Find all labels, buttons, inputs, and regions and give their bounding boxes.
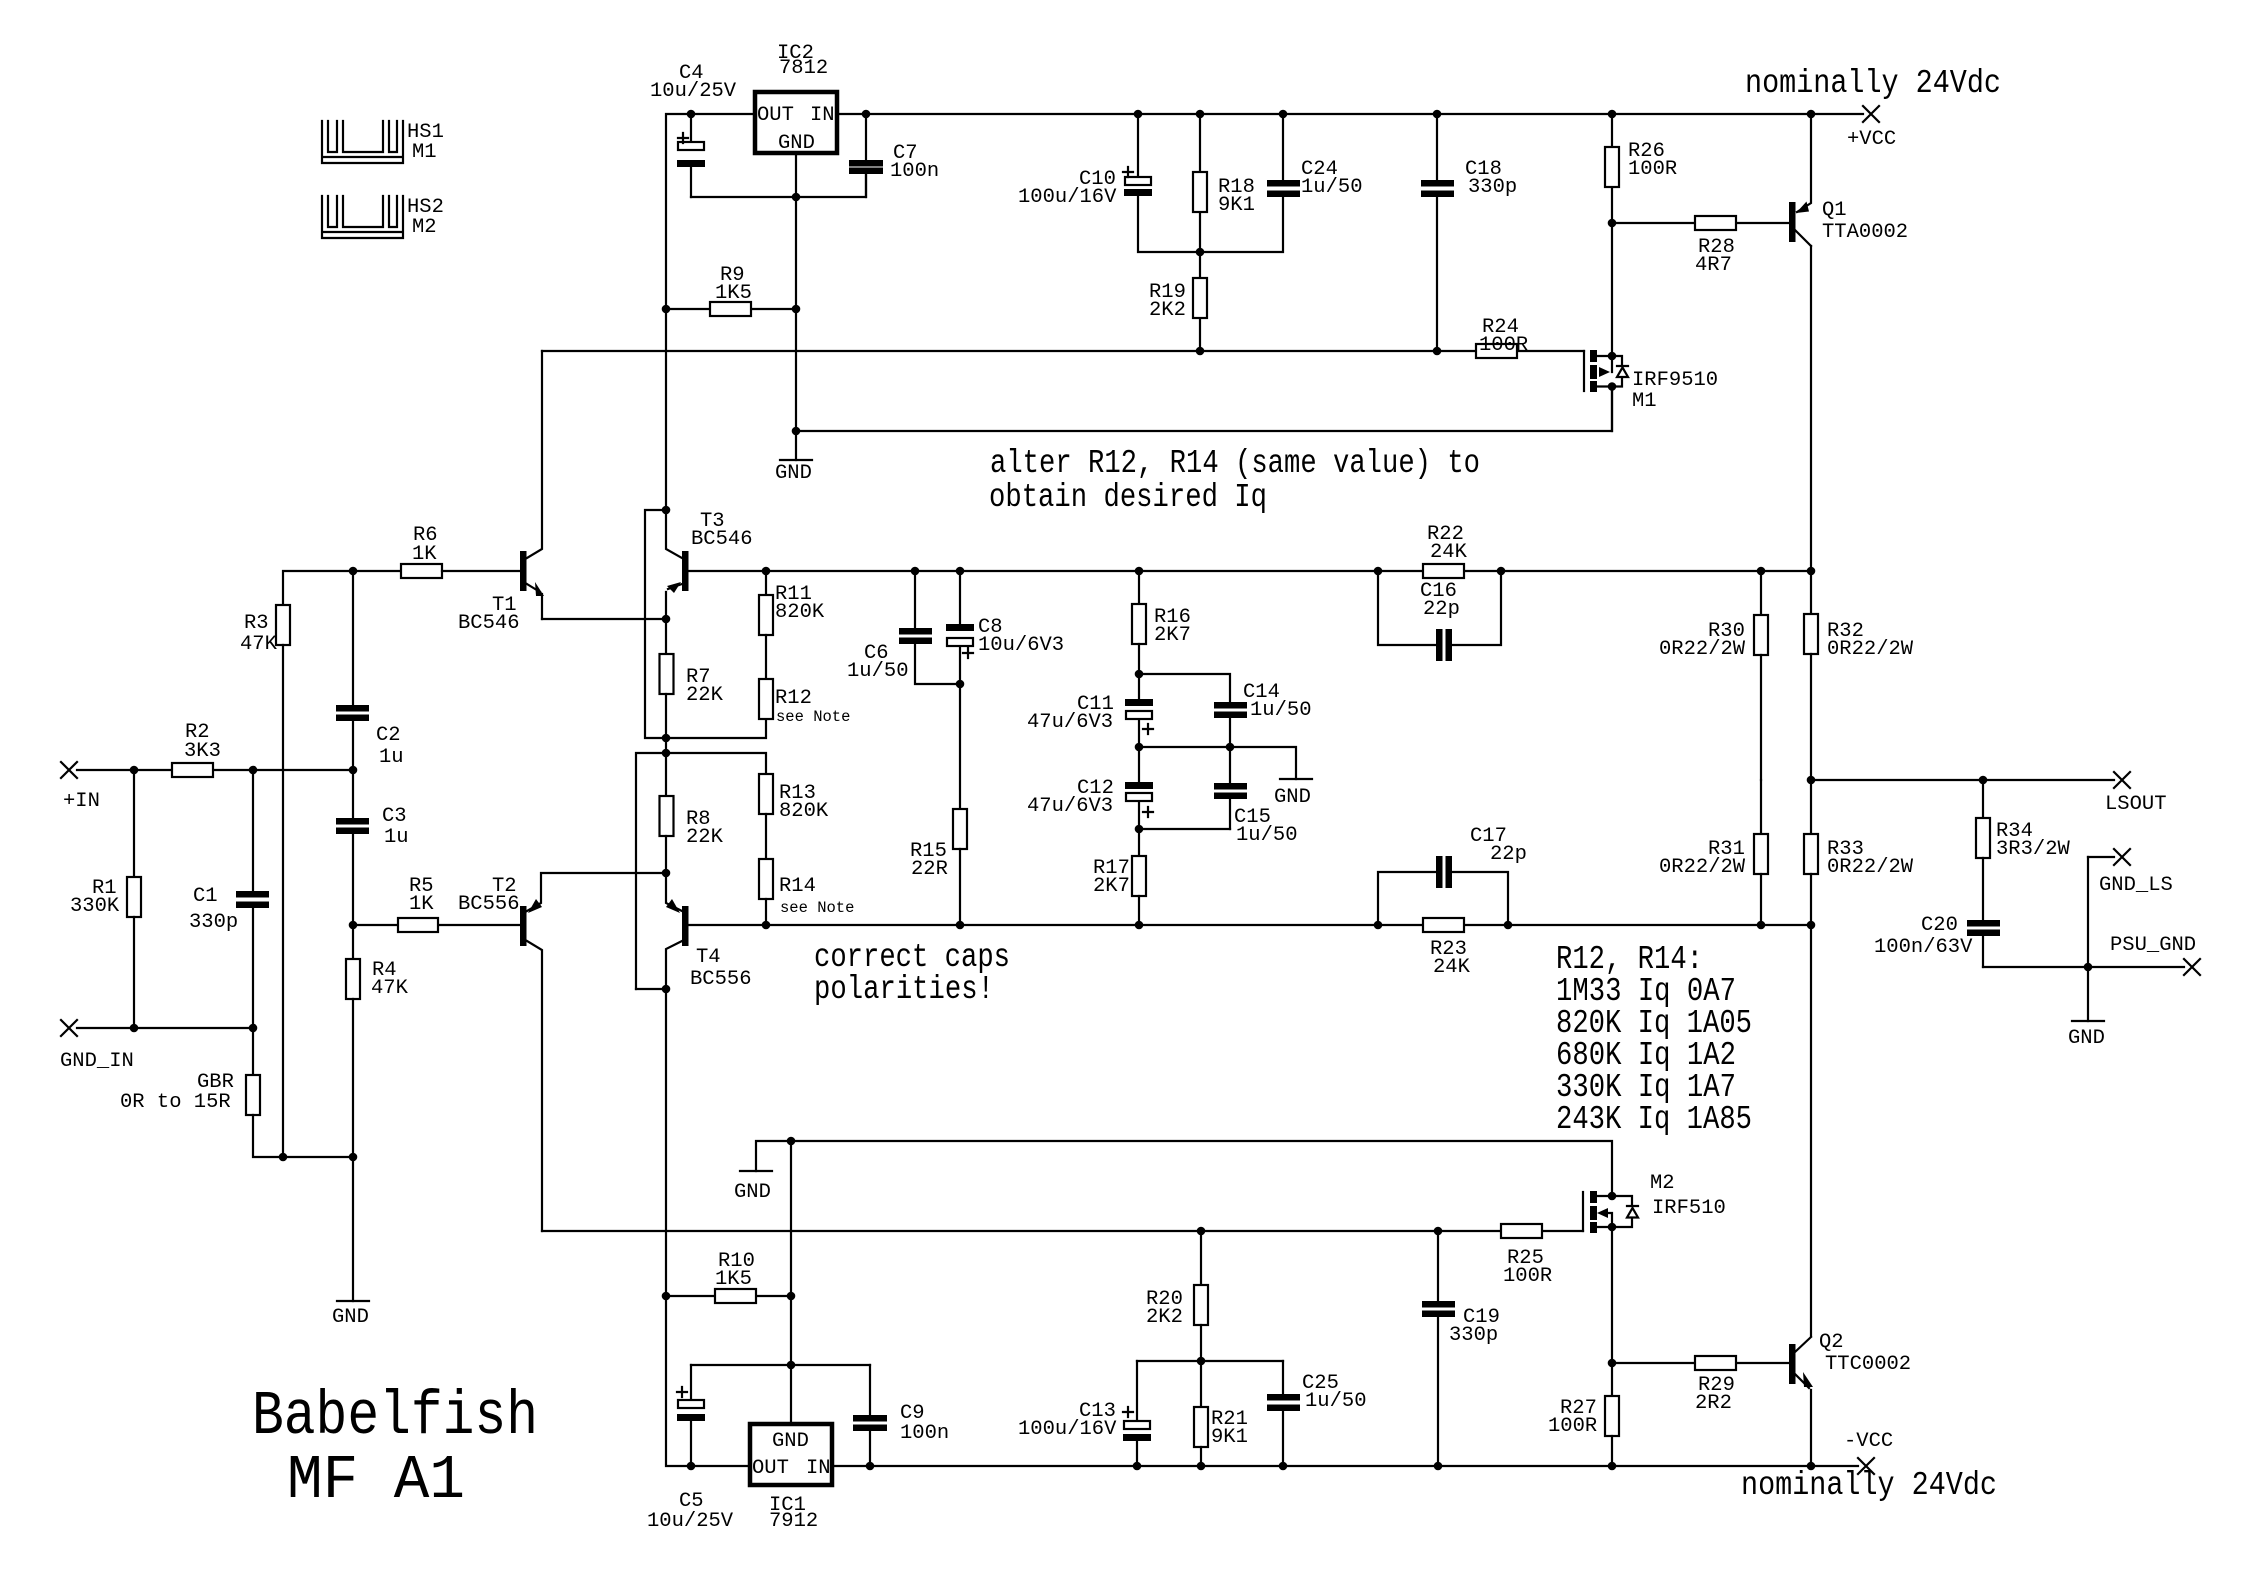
resistor R12 bbox=[759, 679, 850, 726]
note alter R12,R14 bbox=[989, 445, 1480, 516]
heatsink HS2 bbox=[322, 196, 444, 239]
svg-text:GND: GND bbox=[2068, 1027, 2105, 1050]
svg-text:+VCC: +VCC bbox=[1847, 128, 1896, 151]
svg-text:330p: 330p bbox=[189, 911, 238, 934]
svg-text:9K1: 9K1 bbox=[1211, 1426, 1248, 1449]
title Babelfish MF A1 bbox=[252, 1381, 538, 1516]
ground (PSU) bbox=[2068, 1021, 2105, 1050]
resistor R25 bbox=[1501, 1224, 1552, 1288]
resistor R2 bbox=[172, 721, 221, 777]
capacitor C4 bbox=[650, 62, 737, 197]
pin LSOUT bbox=[2105, 772, 2167, 816]
svg-text:47K: 47K bbox=[240, 633, 278, 656]
svg-text:1u/50: 1u/50 bbox=[1301, 176, 1363, 199]
resistor R27 bbox=[1548, 1359, 1619, 1466]
heatsink HS1 bbox=[322, 121, 444, 164]
wire +VCC top rail bbox=[666, 110, 1863, 510]
resistor R10 bbox=[662, 1250, 796, 1303]
svg-text:2K2: 2K2 bbox=[1149, 299, 1186, 322]
resistor R28 bbox=[1612, 216, 1789, 277]
resistor R9 bbox=[662, 264, 796, 316]
svg-text:+IN: +IN bbox=[63, 790, 100, 813]
capacitor C1 bbox=[189, 770, 269, 1028]
svg-text:Q2: Q2 bbox=[1819, 1331, 1844, 1354]
svg-text:24K: 24K bbox=[1430, 541, 1468, 564]
wire T2/T4 emitter node bbox=[527, 869, 682, 911]
svg-text:LSOUT: LSOUT bbox=[2105, 793, 2167, 816]
capacitor C20 bbox=[1874, 914, 2000, 967]
svg-text:1u/50: 1u/50 bbox=[1236, 824, 1298, 847]
svg-text:MF A1: MF A1 bbox=[287, 1445, 465, 1516]
wire M2 drain / GND net bbox=[756, 1137, 1612, 1196]
svg-text:1K: 1K bbox=[409, 893, 434, 916]
wire R8/R13 node bbox=[636, 749, 766, 989]
svg-text:0R22/2W: 0R22/2W bbox=[1827, 638, 1914, 661]
svg-text:47K: 47K bbox=[371, 977, 409, 1000]
svg-text:100u/16V: 100u/16V bbox=[1018, 1418, 1117, 1441]
svg-text:100n/63V: 100n/63V bbox=[1874, 936, 1973, 959]
resistor R7 bbox=[660, 654, 724, 738]
svg-text:100R: 100R bbox=[1548, 1415, 1597, 1438]
resistor R1 bbox=[70, 770, 141, 1028]
svg-text:22K: 22K bbox=[686, 826, 724, 849]
resistor R31 bbox=[1659, 780, 1768, 925]
svg-text:1K5: 1K5 bbox=[715, 1268, 752, 1291]
svg-text:Q1: Q1 bbox=[1822, 199, 1847, 222]
wire C13/R21/C25 loop bbox=[1137, 1357, 1283, 1366]
svg-text:47u/6V3: 47u/6V3 bbox=[1027, 795, 1113, 818]
svg-text:R3: R3 bbox=[244, 612, 269, 635]
resistor R15 bbox=[910, 684, 967, 925]
svg-text:C3: C3 bbox=[382, 805, 407, 828]
svg-text:R12: R12 bbox=[775, 687, 812, 710]
capacitor C24 bbox=[1200, 114, 1363, 252]
svg-text:100R: 100R bbox=[1503, 1265, 1552, 1288]
resistor R32 bbox=[1804, 246, 1914, 780]
svg-text:TTA0002: TTA0002 bbox=[1822, 221, 1908, 244]
svg-text:GND_LS: GND_LS bbox=[2099, 874, 2173, 897]
pin PSU_GND bbox=[2110, 934, 2200, 975]
svg-text:OUT: OUT bbox=[757, 104, 794, 127]
wire IC1 GND pin column bbox=[787, 1141, 796, 1424]
capacitor C11 bbox=[1027, 674, 1153, 747]
ground (input filter) bbox=[332, 1301, 369, 1329]
ground (mid, right of C14) bbox=[1274, 779, 1312, 809]
svg-text:T4: T4 bbox=[696, 946, 721, 969]
svg-text:0R22/2W: 0R22/2W bbox=[1827, 856, 1914, 879]
svg-text:IRF510: IRF510 bbox=[1652, 1197, 1726, 1220]
table R12, R14 values bbox=[1556, 941, 1752, 1138]
resistor R33 bbox=[1804, 780, 1914, 1336]
wire IC2 ground net bbox=[691, 153, 1612, 460]
svg-text:1u/50: 1u/50 bbox=[1305, 1390, 1367, 1413]
resistor R6 bbox=[401, 524, 520, 578]
svg-text:820K: 820K bbox=[779, 800, 829, 823]
svg-text:nominally 24Vdc: nominally 24Vdc bbox=[1745, 65, 2001, 102]
ground (M2 drain) bbox=[734, 1171, 772, 1204]
capacitor C6 bbox=[847, 571, 960, 684]
resistor R8 bbox=[660, 796, 724, 873]
capacitor C5 bbox=[647, 1365, 734, 1533]
svg-text:243K Iq 1A85: 243K Iq 1A85 bbox=[1556, 1101, 1752, 1138]
svg-text:GND_IN: GND_IN bbox=[60, 1050, 134, 1073]
svg-text:nominally 24Vdc: nominally 24Vdc bbox=[1741, 1467, 1997, 1504]
svg-text:M2: M2 bbox=[412, 216, 437, 239]
voltage regulator IC2 7812 bbox=[755, 42, 837, 155]
svg-text:2K7: 2K7 bbox=[1154, 624, 1191, 647]
transistor Q2 TTC0002 bbox=[1789, 1331, 1911, 1466]
svg-text:100u/16V: 100u/16V bbox=[1018, 186, 1117, 209]
svg-text:GND: GND bbox=[775, 462, 812, 485]
resistor R24 bbox=[1476, 316, 1528, 358]
pin GND_IN bbox=[60, 1020, 134, 1073]
resistor R34 bbox=[1976, 780, 2071, 920]
resistor R21 bbox=[1194, 1361, 1248, 1466]
svg-text:TTC0002: TTC0002 bbox=[1825, 1353, 1911, 1376]
transistor T2 BC556 bbox=[458, 875, 542, 1231]
svg-text:Babelfish: Babelfish bbox=[252, 1381, 538, 1452]
capacitor C2 bbox=[336, 571, 404, 770]
wire M2 gate rail (T2 collector) bbox=[542, 1227, 1583, 1236]
voltage regulator IC1 7912 bbox=[750, 1424, 832, 1533]
wire PSU_GND node bbox=[1983, 857, 2184, 1021]
svg-text:obtain desired Iq: obtain desired Iq bbox=[989, 479, 1267, 516]
wire upper base rail y=571 bbox=[689, 567, 1815, 576]
resistor R13 bbox=[759, 774, 829, 859]
svg-text:330p: 330p bbox=[1449, 1324, 1498, 1347]
svg-text:C2: C2 bbox=[376, 724, 401, 747]
svg-text:3R3/2W: 3R3/2W bbox=[1996, 838, 2071, 861]
svg-text:IN: IN bbox=[810, 104, 835, 127]
svg-text:GND: GND bbox=[1274, 786, 1311, 809]
capacitor C17 bbox=[1378, 825, 1527, 925]
svg-text:0R22/2W: 0R22/2W bbox=[1659, 856, 1746, 879]
svg-text:1K: 1K bbox=[412, 543, 437, 566]
svg-text:100n: 100n bbox=[890, 160, 939, 183]
svg-text:10u/25V: 10u/25V bbox=[647, 1510, 734, 1533]
wire -VCC bottom rail bbox=[666, 1296, 1858, 1470]
svg-text:820K: 820K bbox=[775, 601, 825, 624]
transistor T1 BC546 bbox=[458, 351, 544, 635]
pin GND_LS bbox=[2088, 849, 2173, 897]
svg-text:C1: C1 bbox=[193, 885, 218, 908]
resistor R23 bbox=[1423, 918, 1471, 979]
svg-text:GND: GND bbox=[332, 1306, 369, 1329]
svg-text:M1: M1 bbox=[412, 141, 437, 164]
svg-text:IN: IN bbox=[806, 1457, 831, 1480]
transistor Q1 TTA0002 bbox=[1789, 114, 1908, 246]
svg-text:R14: R14 bbox=[779, 875, 816, 898]
svg-text:3K3: 3K3 bbox=[184, 740, 221, 763]
resistor R14 bbox=[759, 859, 854, 925]
svg-text:22K: 22K bbox=[686, 684, 724, 707]
svg-text:see Note: see Note bbox=[780, 899, 854, 917]
resistor R17 bbox=[1093, 829, 1146, 925]
svg-text:330K: 330K bbox=[70, 895, 120, 918]
resistor R29 bbox=[1612, 1356, 1789, 1415]
capacitor C10 bbox=[1018, 114, 1200, 252]
resistor R20 bbox=[1146, 1231, 1208, 1361]
capacitor C25 bbox=[1267, 1361, 1367, 1466]
svg-text:7912: 7912 bbox=[769, 1510, 818, 1533]
capacitor C8 bbox=[946, 571, 1064, 688]
svg-text:2K2: 2K2 bbox=[1146, 1306, 1183, 1329]
svg-text:PSU_GND: PSU_GND bbox=[2110, 934, 2196, 957]
MOSFET M1 IRF9510 bbox=[1584, 223, 1718, 431]
note correct caps polarities! bbox=[814, 939, 1010, 1008]
capacitor C19 bbox=[1422, 1231, 1500, 1466]
svg-text:GND: GND bbox=[772, 1430, 809, 1453]
MOSFET M2 IRF510 bbox=[1583, 1172, 1726, 1363]
capacitor C15 bbox=[1135, 747, 1298, 847]
svg-text:BC556: BC556 bbox=[690, 968, 752, 991]
svg-text:IRF9510: IRF9510 bbox=[1632, 369, 1718, 392]
svg-text:2R2: 2R2 bbox=[1695, 1392, 1732, 1415]
svg-text:M1: M1 bbox=[1632, 390, 1657, 413]
capacitor C16 bbox=[1378, 571, 1501, 661]
svg-text:0R22/2W: 0R22/2W bbox=[1659, 638, 1746, 661]
wire R16/C11/C14 node bbox=[1135, 670, 1230, 702]
wire LSOUT rail bbox=[1807, 776, 2114, 785]
wire lower base rail y=925 bbox=[349, 921, 1816, 930]
wire mid GND node bbox=[1135, 743, 1296, 779]
svg-text:100n: 100n bbox=[900, 1422, 949, 1445]
svg-text:M2: M2 bbox=[1650, 1172, 1675, 1195]
svg-text:1u: 1u bbox=[379, 746, 404, 769]
capacitor C18 bbox=[1421, 114, 1517, 351]
resistor R22 bbox=[1423, 523, 1468, 578]
capacitor C3 bbox=[336, 770, 409, 925]
svg-text:BC546: BC546 bbox=[458, 612, 520, 635]
svg-text:24K: 24K bbox=[1433, 956, 1471, 979]
pin +IN bbox=[61, 762, 100, 813]
pin -VCC bbox=[1844, 1430, 1893, 1474]
svg-text:7812: 7812 bbox=[779, 57, 828, 80]
svg-text:9K1: 9K1 bbox=[1218, 194, 1255, 217]
resistor R18 bbox=[1193, 114, 1255, 256]
transistor T4 BC556 bbox=[666, 899, 752, 991]
resistor R19 bbox=[1149, 252, 1207, 351]
svg-text:100R: 100R bbox=[1628, 158, 1677, 181]
svg-text:alter R12, R14 (same value) to: alter R12, R14 (same value) to bbox=[990, 445, 1480, 482]
svg-text:1K5: 1K5 bbox=[715, 282, 752, 305]
resistor R26 bbox=[1605, 114, 1677, 227]
svg-text:10u/6V3: 10u/6V3 bbox=[978, 634, 1064, 657]
wire input node bbox=[77, 766, 357, 775]
wire T4 collector node (-12V feed) bbox=[636, 985, 670, 1296]
ground (under IC2) bbox=[775, 460, 812, 485]
resistor R4 bbox=[346, 925, 409, 1301]
svg-text:polarities!: polarities! bbox=[814, 971, 994, 1008]
svg-text:GND: GND bbox=[734, 1181, 771, 1204]
wire input ground node bbox=[77, 1024, 257, 1033]
capacitor C13 bbox=[1018, 1361, 1151, 1466]
svg-text:BC556: BC556 bbox=[458, 893, 520, 916]
svg-text:10u/25V: 10u/25V bbox=[650, 80, 737, 103]
svg-text:see Note: see Note bbox=[776, 708, 850, 726]
svg-text:100R: 100R bbox=[1479, 334, 1528, 357]
svg-text:BC546: BC546 bbox=[691, 528, 753, 551]
svg-text:1u/50: 1u/50 bbox=[847, 660, 909, 683]
svg-text:OUT: OUT bbox=[752, 1457, 789, 1480]
svg-text:4R7: 4R7 bbox=[1695, 254, 1732, 277]
transistor T3 BC546 bbox=[666, 510, 753, 619]
wire +12V net (IC2 OUT to T3 collector and down) bbox=[645, 506, 682, 738]
capacitor C14 bbox=[1214, 681, 1312, 747]
svg-text:-VCC: -VCC bbox=[1844, 1430, 1893, 1453]
resistor R16 bbox=[1132, 571, 1191, 674]
svg-text:22R: 22R bbox=[911, 858, 948, 881]
capacitor C7 bbox=[849, 114, 939, 197]
resistor R11 bbox=[759, 567, 825, 679]
wire T1/T3 emitter node bbox=[542, 615, 670, 654]
resistor GBR bbox=[120, 1028, 357, 1161]
wire C5/C9 loop bbox=[691, 1364, 870, 1366]
svg-text:C20: C20 bbox=[1921, 914, 1958, 937]
svg-text:330p: 330p bbox=[1468, 176, 1517, 199]
svg-text:1u: 1u bbox=[384, 826, 409, 849]
wire gate drive rail (T1 collector to M1 gate) bbox=[542, 347, 1584, 356]
svg-text:GND: GND bbox=[778, 132, 815, 155]
resistor R30 bbox=[1659, 571, 1768, 780]
capacitor C12 bbox=[1027, 747, 1153, 829]
capacitor C9 bbox=[853, 1365, 949, 1466]
resistor R5 bbox=[398, 875, 438, 932]
svg-text:2K7: 2K7 bbox=[1093, 875, 1130, 898]
svg-text:22p: 22p bbox=[1423, 598, 1460, 621]
svg-text:22p: 22p bbox=[1490, 843, 1527, 866]
pin +VCC bbox=[1847, 106, 1896, 151]
resistor R3 bbox=[240, 567, 401, 1157]
wire R7/R12 node bbox=[662, 719, 766, 753]
svg-text:1u/50: 1u/50 bbox=[1250, 699, 1312, 722]
svg-text:47u/6V3: 47u/6V3 bbox=[1027, 711, 1113, 734]
svg-text:0R to 15R: 0R to 15R bbox=[120, 1091, 231, 1114]
